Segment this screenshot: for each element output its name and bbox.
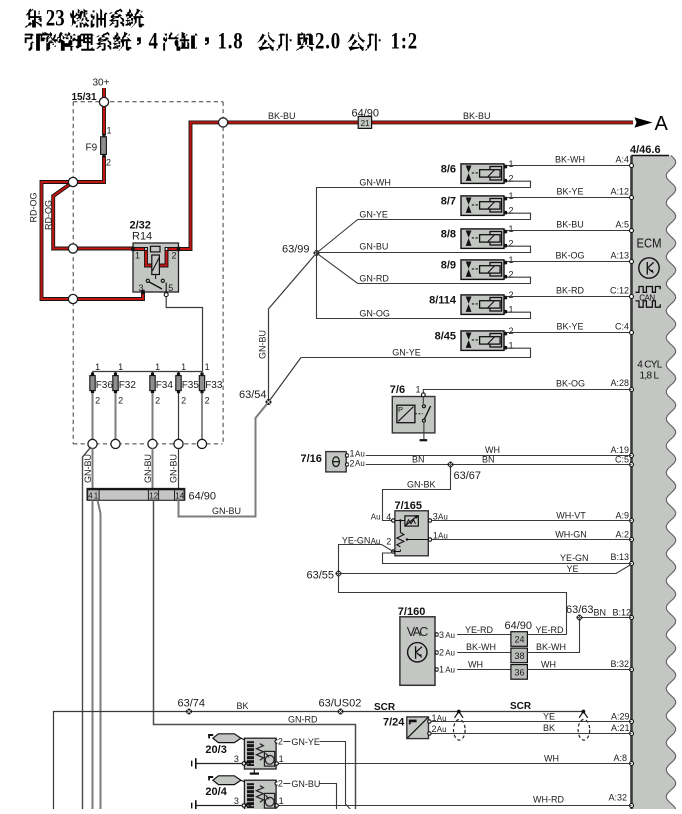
svg-text:1: 1 xyxy=(118,362,123,372)
svg-text:BK-BU: BK-BU xyxy=(268,111,296,121)
svg-text:1: 1 xyxy=(509,340,514,350)
svg-text:SCR: SCR xyxy=(374,702,396,713)
svg-text:14: 14 xyxy=(175,491,184,500)
svg-text:Au: Au xyxy=(445,631,455,640)
svg-text:F34: F34 xyxy=(156,380,174,391)
svg-text:GN-RD: GN-RD xyxy=(359,273,389,283)
svg-text:2: 2 xyxy=(205,395,210,405)
svg-text:63/74: 63/74 xyxy=(178,698,206,710)
svg-text:GN-BK: GN-BK xyxy=(407,479,436,489)
svg-text:BK-WH: BK-WH xyxy=(555,154,585,164)
svg-text:1: 1 xyxy=(181,362,186,372)
svg-text:1: 1 xyxy=(95,362,100,372)
svg-text:C:4: C:4 xyxy=(615,321,629,331)
svg-text:A:5: A:5 xyxy=(615,219,629,229)
svg-text:3: 3 xyxy=(439,630,444,640)
svg-text:8/8: 8/8 xyxy=(441,229,456,241)
svg-text:4: 4 xyxy=(149,28,159,55)
svg-text:A:13: A:13 xyxy=(610,250,629,260)
svg-text:YE: YE xyxy=(543,712,555,722)
svg-text:A:8: A:8 xyxy=(613,753,627,763)
svg-text:64/90: 64/90 xyxy=(189,491,217,503)
svg-text:2: 2 xyxy=(509,290,514,300)
svg-text:2.0: 2.0 xyxy=(315,28,341,55)
svg-text:BK-BU: BK-BU xyxy=(463,111,491,121)
svg-text:GN-RD: GN-RD xyxy=(288,714,318,724)
svg-text:SCR: SCR xyxy=(510,701,532,712)
svg-text:2: 2 xyxy=(95,395,100,405)
svg-text:Au: Au xyxy=(355,459,365,468)
svg-text:30+: 30+ xyxy=(93,78,110,89)
svg-text:BN: BN xyxy=(482,454,495,464)
svg-text:Au: Au xyxy=(445,666,455,675)
svg-text:2: 2 xyxy=(350,458,355,468)
svg-text:B:12: B:12 xyxy=(612,608,631,618)
svg-text:F35: F35 xyxy=(182,380,200,391)
svg-text:C:12: C:12 xyxy=(610,285,629,295)
svg-text:GN-YE: GN-YE xyxy=(392,347,421,357)
svg-text:YE-GN: YE-GN xyxy=(560,553,589,563)
svg-text:F9: F9 xyxy=(86,143,98,154)
svg-text:R14: R14 xyxy=(132,231,152,243)
svg-text:24: 24 xyxy=(515,635,525,645)
svg-text:1: 1 xyxy=(279,796,284,806)
svg-text:3: 3 xyxy=(234,796,239,806)
svg-text:8/45: 8/45 xyxy=(435,331,456,343)
svg-text:4 CYL: 4 CYL xyxy=(637,360,662,371)
svg-text:B:13: B:13 xyxy=(610,552,629,562)
svg-text:F33: F33 xyxy=(205,380,223,391)
svg-text:20/4: 20/4 xyxy=(205,786,227,798)
svg-text:4/46.6: 4/46.6 xyxy=(630,144,661,156)
svg-text:GN-BU: GN-BU xyxy=(258,330,268,359)
svg-text:1: 1 xyxy=(439,665,444,675)
svg-text:5: 5 xyxy=(168,283,173,293)
svg-text:1.8: 1.8 xyxy=(218,28,244,55)
svg-text:63/99: 63/99 xyxy=(282,243,310,255)
svg-text:Au: Au xyxy=(355,449,365,458)
svg-text:GN-BU: GN-BU xyxy=(143,454,153,483)
svg-text:YE: YE xyxy=(567,564,579,574)
svg-text:2: 2 xyxy=(509,269,514,279)
svg-text:A:29: A:29 xyxy=(611,711,630,721)
svg-text:GN-WH: GN-WH xyxy=(359,177,391,187)
svg-text:WH-RD: WH-RD xyxy=(533,795,564,805)
svg-text:YE-RD: YE-RD xyxy=(536,625,565,635)
svg-text:BK-OG: BK-OG xyxy=(555,250,584,260)
svg-text:2: 2 xyxy=(278,736,283,746)
svg-text:Au: Au xyxy=(437,725,447,734)
svg-text:GN-BU: GN-BU xyxy=(212,506,241,516)
svg-text:RD-OG: RD-OG xyxy=(44,200,54,230)
svg-text:1: 1 xyxy=(509,224,514,234)
svg-text:8/7: 8/7 xyxy=(441,196,456,208)
svg-text:BK-OG: BK-OG xyxy=(556,379,585,389)
svg-text:1: 1 xyxy=(350,449,355,459)
svg-text:2: 2 xyxy=(509,173,514,183)
svg-text:C:5: C:5 xyxy=(615,454,629,464)
svg-text:BK-WH: BK-WH xyxy=(536,642,566,652)
svg-text:64/90: 64/90 xyxy=(505,620,533,632)
svg-text:2: 2 xyxy=(118,395,123,405)
svg-text:RD-OG: RD-OG xyxy=(29,193,39,223)
svg-text:7/165: 7/165 xyxy=(395,500,423,512)
svg-text:BK: BK xyxy=(237,701,249,711)
svg-text:7/160: 7/160 xyxy=(398,606,426,618)
svg-text:2: 2 xyxy=(509,238,514,248)
svg-text:2: 2 xyxy=(439,648,444,658)
svg-text:GN-BU: GN-BU xyxy=(169,454,179,483)
svg-text:ECM: ECM xyxy=(637,237,662,251)
svg-text:2: 2 xyxy=(155,395,160,405)
svg-text:1: 1 xyxy=(279,754,284,764)
svg-text:63/63: 63/63 xyxy=(566,604,594,616)
svg-text:F32: F32 xyxy=(119,380,137,391)
svg-text:3: 3 xyxy=(234,754,239,764)
svg-text:2: 2 xyxy=(386,537,391,547)
svg-text:1: 1 xyxy=(94,491,99,500)
svg-text:F36: F36 xyxy=(96,380,114,391)
svg-text:VAC: VAC xyxy=(407,625,429,639)
svg-text:1: 1 xyxy=(509,159,514,169)
svg-text:38: 38 xyxy=(515,651,525,661)
svg-text:1: 1 xyxy=(509,191,514,201)
svg-text:BK-YE: BK-YE xyxy=(556,321,583,331)
svg-text:A:4: A:4 xyxy=(615,154,629,164)
svg-text:1,8 L: 1,8 L xyxy=(640,371,660,382)
svg-text:1: 1 xyxy=(107,126,112,136)
svg-text:2: 2 xyxy=(278,778,283,788)
svg-text:Au: Au xyxy=(445,648,455,657)
svg-text:2: 2 xyxy=(106,158,111,168)
svg-text:GN-YE: GN-YE xyxy=(359,209,388,219)
svg-text:8/114: 8/114 xyxy=(429,295,457,307)
svg-text:WH: WH xyxy=(544,753,559,763)
svg-text:8/6: 8/6 xyxy=(441,164,456,176)
svg-text:GN-BU: GN-BU xyxy=(291,779,320,789)
svg-text:7/16: 7/16 xyxy=(301,453,322,465)
svg-text:BK-YE: BK-YE xyxy=(556,186,583,196)
svg-text:12: 12 xyxy=(149,491,158,500)
svg-text:2: 2 xyxy=(432,724,437,734)
svg-text:63/US02: 63/US02 xyxy=(319,698,362,710)
svg-text:36: 36 xyxy=(515,668,525,678)
svg-text:63/55: 63/55 xyxy=(307,570,335,582)
svg-text:YE-RD: YE-RD xyxy=(465,625,494,635)
svg-text:WH-GN: WH-GN xyxy=(555,529,587,539)
svg-text:7/24: 7/24 xyxy=(383,716,405,728)
svg-text:2: 2 xyxy=(172,251,177,261)
svg-text:GN-BU: GN-BU xyxy=(83,454,93,483)
svg-text:2: 2 xyxy=(181,395,186,405)
svg-text:GN-YE: GN-YE xyxy=(291,737,320,747)
svg-text:P: P xyxy=(398,405,403,414)
svg-text:BN: BN xyxy=(594,608,607,618)
svg-text:15/31: 15/31 xyxy=(72,92,97,103)
svg-text:A:21: A:21 xyxy=(611,723,630,733)
svg-text:8/9: 8/9 xyxy=(441,260,456,272)
svg-text:BK-BU: BK-BU xyxy=(556,219,584,229)
svg-text:2: 2 xyxy=(509,205,514,215)
svg-text:A:32: A:32 xyxy=(608,793,627,803)
svg-text:WH: WH xyxy=(468,659,483,669)
svg-text:21: 21 xyxy=(361,119,370,128)
svg-text:1: 1 xyxy=(509,304,514,314)
svg-text:1: 1 xyxy=(509,255,514,265)
svg-text:A:2: A:2 xyxy=(615,529,629,539)
svg-text:7/6: 7/6 xyxy=(390,384,405,396)
svg-text:3: 3 xyxy=(139,283,144,293)
svg-text:1: 1 xyxy=(155,362,160,372)
svg-text:BN: BN xyxy=(412,454,425,464)
svg-text:2: 2 xyxy=(509,326,514,336)
svg-text:A: A xyxy=(655,113,669,135)
svg-text:20/3: 20/3 xyxy=(205,744,226,756)
svg-text:1: 1 xyxy=(205,362,210,372)
svg-text:Au: Au xyxy=(371,513,381,522)
svg-text:23: 23 xyxy=(46,4,65,31)
svg-text:A:9: A:9 xyxy=(615,510,629,520)
svg-text:GN-OG: GN-OG xyxy=(359,308,390,318)
svg-text:4: 4 xyxy=(88,491,93,500)
svg-text:4: 4 xyxy=(386,512,391,522)
svg-text:WH: WH xyxy=(541,659,556,669)
svg-text:WH-VT: WH-VT xyxy=(556,510,586,520)
svg-text:1: 1 xyxy=(416,385,421,395)
svg-text:A:28: A:28 xyxy=(610,378,629,388)
svg-text:63/54: 63/54 xyxy=(239,389,267,401)
svg-text:BK: BK xyxy=(543,723,555,733)
svg-text:1: 1 xyxy=(135,251,140,261)
svg-text:BK-RD: BK-RD xyxy=(556,285,585,295)
svg-text:GN-BU: GN-BU xyxy=(359,241,388,251)
svg-text:63/67: 63/67 xyxy=(454,470,482,482)
svg-text:A:12: A:12 xyxy=(610,186,629,196)
svg-text:B:32: B:32 xyxy=(610,659,629,669)
svg-text:BK-WH: BK-WH xyxy=(466,642,496,652)
svg-text:1:2: 1:2 xyxy=(391,28,418,55)
